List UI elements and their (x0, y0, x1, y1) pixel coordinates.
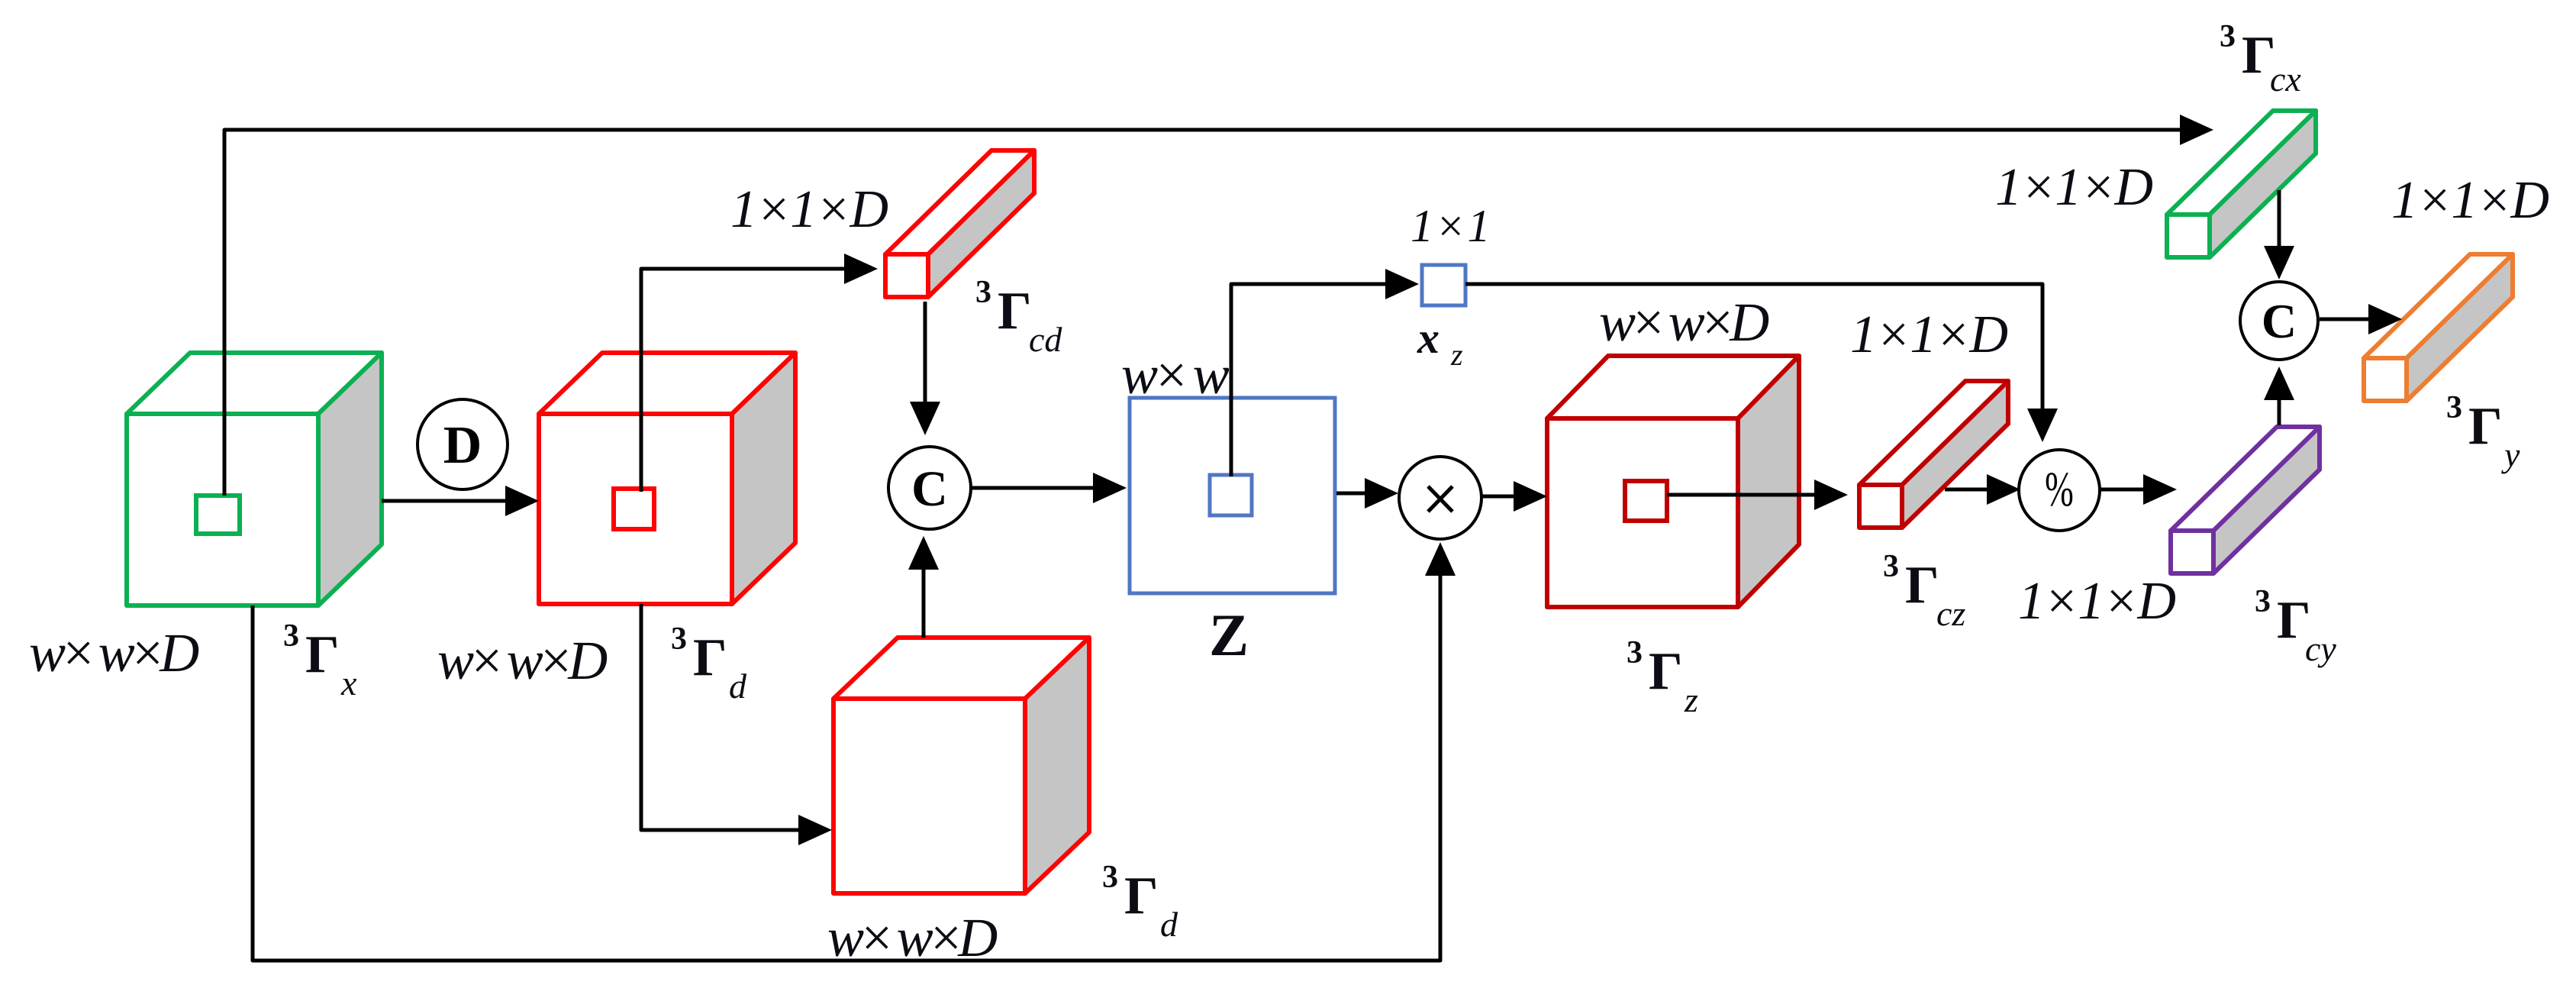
svg-text:cz: cz (1936, 594, 1965, 633)
svg-text:cy: cy (2305, 629, 2336, 668)
svg-text:Z: Z (1209, 602, 1249, 668)
svg-text:3: 3 (2446, 390, 2462, 425)
svg-text:1×1×D: 1×1×D (1995, 158, 2152, 217)
svg-text:w× w×D: w× w×D (437, 630, 607, 691)
svg-text:Γ: Γ (693, 628, 727, 687)
svg-text:w× w: w× w (1121, 344, 1230, 405)
svg-text:Γ: Γ (305, 625, 340, 684)
svg-text:C: C (911, 461, 948, 517)
svg-text:x: x (340, 664, 357, 702)
svg-text:3: 3 (975, 275, 991, 310)
svg-text:1×1×D: 1×1×D (2391, 171, 2549, 230)
svg-text:cx: cx (2270, 60, 2301, 98)
svg-text:3: 3 (2255, 584, 2271, 619)
svg-text:Γ: Γ (998, 282, 1032, 341)
svg-text:%: % (2045, 462, 2074, 517)
svg-text:3: 3 (2220, 19, 2236, 54)
svg-text:3: 3 (1102, 860, 1118, 895)
svg-text:1×1: 1×1 (1411, 201, 1492, 251)
svg-text:3: 3 (1883, 549, 1899, 584)
svg-text:z: z (1450, 337, 1463, 372)
svg-text:z: z (1684, 680, 1698, 719)
svg-text:Γ: Γ (1905, 556, 1939, 615)
svg-text:3: 3 (283, 618, 299, 654)
svg-text:Γ: Γ (1124, 867, 1159, 925)
svg-text:D: D (443, 416, 482, 475)
svg-text:y: y (2501, 435, 2520, 474)
svg-text:cd: cd (1029, 320, 1062, 359)
svg-text:d: d (729, 667, 747, 706)
svg-text:1×1×D: 1×1×D (730, 180, 888, 239)
svg-text:x: x (1417, 313, 1440, 363)
svg-text:d: d (1160, 905, 1178, 944)
svg-text:w× w×D: w× w×D (29, 622, 198, 683)
svg-text:1×1×D: 1×1×D (1850, 305, 2007, 364)
svg-text:w× w×D: w× w×D (1599, 292, 1768, 353)
svg-text:1×1×D: 1×1×D (2018, 572, 2175, 631)
svg-text:3: 3 (1627, 635, 1643, 670)
svg-text:C: C (2262, 294, 2297, 348)
svg-text:3: 3 (671, 622, 687, 657)
svg-text:Γ: Γ (2468, 397, 2503, 456)
svg-text:Γ: Γ (1649, 642, 1683, 701)
